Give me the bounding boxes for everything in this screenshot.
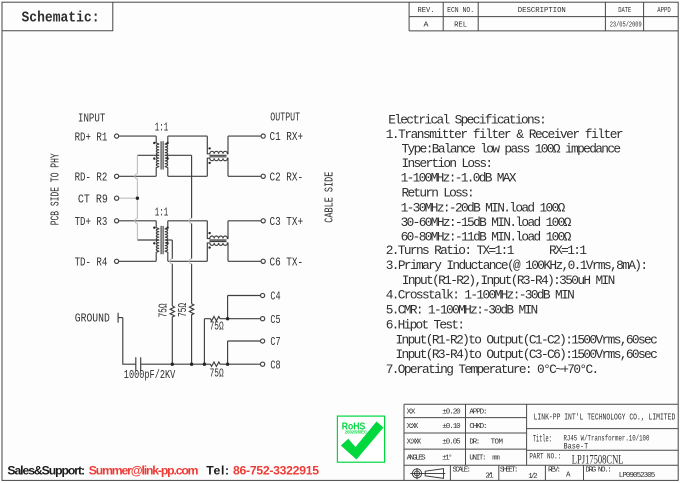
phase dots T1: [153, 142, 155, 144]
svg-text:4.Crosstalk: 1-100MHz:-30dB MI: 4.Crosstalk: 1-100MHz:-30dB MIN: [386, 288, 575, 303]
capacitor 1000pF/2KV: [136, 357, 141, 371]
terminal C2: [261, 174, 265, 178]
svg-text:Electrical Specifications:: Electrical Specifications:: [388, 112, 547, 127]
transformer T2 secondary winding: [165, 221, 168, 261]
junction CT/R9: [136, 197, 139, 200]
wire ground down: [123, 318, 136, 365]
wire T1 primary center tap: [137, 154, 159, 156]
title block grid: [404, 404, 678, 480]
wire node A vertical (T1 sec CT down): [191, 155, 193, 303]
svg-text:REL: REL: [454, 21, 467, 29]
wire R2 stub: [119, 175, 156, 177]
electrical specifications text: [386, 112, 658, 377]
svg-text:Summer@link-pp.com: Summer@link-pp.com: [89, 463, 199, 477]
svg-text:±0.05: ±0.05: [442, 439, 461, 447]
svg-text:75Ω: 75Ω: [210, 320, 224, 333]
svg-text:DRG NO.:: DRG NO.:: [585, 467, 611, 475]
svg-text:1/2: 1/2: [528, 473, 537, 481]
phase dots L2: [208, 232, 210, 234]
svg-text:2.Turns Ratio: TX=1:1 RX=: 2.Turns Ratio: TX=1:1 RX=1:1: [386, 243, 588, 258]
svg-text:RD- R2: RD- R2: [75, 172, 108, 185]
RoHS checkmark: [341, 422, 384, 460]
junction rail 2: [190, 363, 193, 366]
wire C6 stub: [228, 260, 261, 262]
svg-text:CHKD:: CHKD:: [469, 423, 487, 431]
transformer T1 secondary winding: [165, 136, 168, 176]
wire R4 stub: [119, 260, 156, 262]
wire T2 bottom rail to choke: [168, 260, 208, 262]
wire node B vertical (T2 sec CT down): [171, 240, 173, 306]
svg-text:Input(R1-R2),Input(R3-R4):350u: Input(R1-R2),Input(R3-R4):350uH MIN: [402, 273, 616, 288]
terminal R3: [115, 219, 119, 223]
choke L1 bottom winding: [207, 158, 228, 176]
transformer T2 primary winding: [156, 221, 159, 261]
svg-text:X:XXX: X:XXX: [407, 439, 422, 447]
transformer T1 core: [161, 141, 163, 169]
resistor 75ohm horizontal bottom: [210, 362, 220, 366]
svg-text:ANGLES: ANGLES: [407, 455, 427, 463]
svg-text:X:X: X:X: [407, 409, 416, 417]
svg-text:SHEET:: SHEET:: [500, 467, 519, 475]
svg-text:1:1: 1:1: [155, 121, 168, 134]
svg-text:C6 TX-: C6 TX-: [270, 257, 304, 270]
wire C7 stub: [228, 341, 261, 364]
svg-text:UNIT:: UNIT:: [469, 455, 486, 463]
svg-text:Return Loss:: Return Loss:: [402, 185, 475, 200]
wire T2 primary center tap: [137, 239, 159, 241]
wire T1 top rail to choke: [168, 135, 208, 137]
wire hop CT over R3: [135, 218, 138, 223]
resistor 75ohm vertical left: [170, 306, 174, 364]
wire T2 secondary center tap to node: [165, 239, 173, 241]
svg-text:Schematic:: Schematic:: [22, 9, 100, 27]
svg-text:Tel:: Tel:: [206, 463, 229, 477]
svg-text:LP09052305: LP09052305: [619, 472, 656, 480]
svg-text:2/1: 2/1: [485, 473, 494, 481]
svg-text:OUTPUT: OUTPUT: [270, 112, 300, 125]
svg-text:Type:Balance low pass 100Ω imp: Type:Balance low pass 100Ω impedance: [402, 142, 622, 157]
wire hop node B over T2 bottom rail: [170, 259, 172, 264]
junction rail 1: [171, 363, 174, 366]
svg-text:1-100MHz:-1.0dB MAX: 1-100MHz:-1.0dB MAX: [401, 171, 517, 186]
svg-text:30-60MHz:-15dB MIN.load 100Ω: 30-60MHz:-15dB MIN.load 100Ω: [401, 215, 572, 230]
svg-text:DESCRIPTION: DESCRIPTION: [518, 7, 566, 15]
wire CT vertical (light): [136, 155, 138, 240]
revision table header text: [418, 7, 672, 29]
svg-text:75Ω: 75Ω: [158, 303, 171, 317]
terminal C8: [261, 362, 265, 366]
svg-text:C1 RX+: C1 RX+: [270, 131, 304, 144]
choke L1 core: [210, 155, 227, 157]
svg-text:1000pF/2KV: 1000pF/2KV: [124, 369, 176, 382]
svg-text:5.CMR: 1-100MHz:-30dB MIN: 5.CMR: 1-100MHz:-30dB MIN: [386, 303, 539, 318]
junction C4/C5: [226, 317, 229, 320]
terminal C5: [261, 317, 265, 321]
transformer T1 primary winding: [156, 136, 159, 176]
svg-text:±0.20: ±0.20: [442, 409, 461, 417]
svg-text:3.Primary Inductance(@ 100KHz,: 3.Primary Inductance(@ 100KHz,0.1Vrms,8m…: [386, 258, 648, 273]
wire C8 stub: [220, 363, 261, 365]
svg-text:23/05/2009: 23/05/2009: [610, 21, 642, 29]
svg-text:A: A: [424, 21, 430, 29]
terminal C6: [261, 259, 265, 263]
svg-text:±0.10: ±0.10: [442, 423, 461, 431]
svg-text:GROUND: GROUND: [75, 313, 110, 326]
svg-text:X:XX: X:XX: [407, 423, 419, 431]
terminal C3: [261, 219, 265, 223]
wire C5 stub: [220, 318, 261, 320]
svg-text:mm: mm: [492, 455, 500, 463]
svg-text:C5: C5: [270, 314, 280, 327]
svg-text:±1°: ±1°: [442, 454, 452, 463]
svg-text:1:1: 1:1: [155, 207, 168, 220]
choke L2 core: [210, 240, 227, 242]
wire C5 left lead: [204, 319, 210, 365]
resistor 75ohm horizontal top: [210, 317, 220, 321]
svg-text:C3 TX+: C3 TX+: [270, 216, 304, 229]
wire C1 stub: [228, 135, 261, 137]
terminal R1: [115, 134, 119, 138]
svg-text:LPJ17508CNL: LPJ17508CNL: [572, 451, 624, 466]
terminal R2: [115, 174, 119, 178]
wire R1 stub: [119, 135, 156, 137]
wire hop CT over R2: [135, 174, 138, 179]
label 75 ohm vertical right: [177, 303, 190, 317]
junction rail 3: [203, 363, 206, 366]
choke L2 top winding: [207, 221, 228, 239]
wire T1 bottom rail to choke: [168, 175, 208, 177]
wire C4 stub: [228, 296, 261, 319]
svg-text:CABLE SIDE: CABLE SIDE: [323, 172, 336, 223]
svg-text:Input(R3-R4)to Output(C3-C6):1: Input(R3-R4)to Output(C3-C6):1500Vrms,60…: [396, 347, 658, 362]
wire hop node A over T2 bottom rail: [189, 259, 191, 264]
transformer T2 core: [161, 226, 163, 254]
svg-text:Title:: Title:: [533, 434, 552, 446]
svg-text:APPD:: APPD:: [469, 409, 487, 417]
svg-text:Base-T: Base-T: [564, 443, 589, 452]
label 75 ohm vertical left: [158, 303, 171, 317]
RoHS logo box: [337, 416, 384, 462]
label CABLE SIDE: [323, 172, 336, 223]
svg-text:6.Hipot Test:: 6.Hipot Test:: [386, 317, 465, 332]
terminal C1: [261, 134, 265, 138]
svg-text:REV.: REV.: [418, 7, 435, 15]
svg-text:C4: C4: [270, 291, 280, 304]
svg-text:A: A: [566, 472, 571, 480]
svg-text:C2 RX-: C2 RX-: [270, 172, 304, 185]
svg-text:2002/95/EC: 2002/95/EC: [345, 430, 367, 435]
wire ground rail: [141, 363, 211, 365]
svg-text:APPD: APPD: [657, 7, 671, 15]
svg-text:PCB SIDE TO PHY: PCB SIDE TO PHY: [49, 153, 62, 225]
svg-text:PART NO.:: PART NO.:: [529, 453, 561, 462]
svg-text:C7: C7: [270, 336, 280, 349]
wire R3 stub: [119, 220, 156, 222]
Schematic title box: [2, 2, 113, 31]
svg-text:75Ω: 75Ω: [177, 303, 190, 317]
svg-text:Sales&Support:: Sales&Support:: [7, 463, 85, 477]
terminal C7: [261, 339, 265, 343]
label PCB SIDE TO PHY: [49, 153, 62, 225]
wire C2 stub: [228, 175, 261, 177]
wire T2 top rail to choke: [168, 220, 208, 222]
terminal R9: [115, 196, 119, 200]
wire T1 secondary center tap to node: [165, 154, 192, 156]
terminal C4: [261, 293, 265, 297]
revision table grid: [409, 2, 678, 31]
svg-text:C8: C8: [270, 359, 280, 372]
projection symbol circle: [410, 468, 445, 479]
choke L2 bottom winding: [207, 243, 228, 261]
svg-text:Input(R1-R2)to Output(C1-C2):1: Input(R1-R2)to Output(C1-C2):1500Vrms,60…: [396, 332, 658, 347]
choke L1 top winding: [207, 136, 228, 154]
SEC1: [118, 136, 261, 371]
svg-text:CT R9: CT R9: [78, 193, 108, 206]
svg-text:ECN NO.: ECN NO.: [447, 7, 474, 15]
svg-text:Insertion Loss:: Insertion Loss:: [402, 156, 494, 171]
svg-text:1-30MHz:-20dB MIN.load 100Ω: 1-30MHz:-20dB MIN.load 100Ω: [401, 200, 566, 215]
svg-text:TOM: TOM: [491, 439, 504, 447]
svg-text:1.Transmitter filter & Receive: 1.Transmitter filter & Receiver filter: [386, 127, 624, 142]
svg-text:TD- R4: TD- R4: [75, 257, 108, 270]
junction rail 4: [226, 363, 229, 366]
svg-text:DR:: DR:: [469, 439, 480, 447]
terminal R4: [115, 259, 119, 263]
svg-text:LINK-PP INT'L TECHNOLOGY CO.,: LINK-PP INT'L TECHNOLOGY CO., LIMITED: [534, 412, 676, 422]
wire R9 stub (light): [119, 197, 138, 199]
phase dots L1: [208, 147, 210, 149]
sales support line: [7, 463, 319, 477]
svg-text:DATE: DATE: [618, 7, 631, 15]
svg-text:75Ω: 75Ω: [210, 367, 224, 380]
phase dots T2: [153, 227, 155, 229]
svg-text:7.Operating Temperature: 0°C~+: 7.Operating Temperature: 0°C~+70°C.: [386, 362, 600, 377]
svg-text:REV:: REV:: [548, 467, 561, 475]
wire C3 stub: [228, 220, 261, 222]
svg-text:INPUT: INPUT: [78, 112, 105, 125]
svg-text:SCALE:: SCALE:: [453, 467, 472, 475]
resistor 75ohm vertical right: [189, 304, 193, 364]
wire hop node A over T2 top rail: [189, 218, 191, 223]
projection symbol cone: [425, 469, 443, 479]
svg-text:TD+ R3: TD+ R3: [75, 216, 108, 229]
svg-text:RD+ R1: RD+ R1: [75, 131, 108, 144]
ground terminal tick: [118, 313, 123, 323]
svg-text:86-752-3322915: 86-752-3322915: [233, 463, 319, 477]
tolerance table text: [407, 409, 656, 481]
